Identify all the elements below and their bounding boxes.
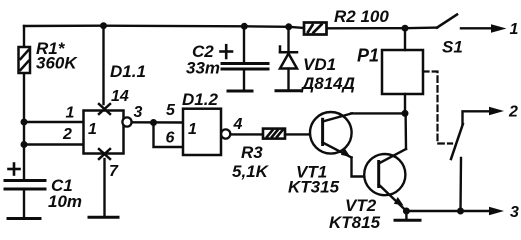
- svg-text:S1: S1: [442, 38, 463, 57]
- D1.2 output bubble pin 4: [221, 129, 230, 138]
- pin 7 X mark: [99, 149, 110, 159]
- svg-text:1: 1: [510, 21, 519, 38]
- wire pin 7 down: [103, 159, 105, 216]
- svg-text:KT815: KT815: [329, 213, 381, 232]
- wire rail to P1 top: [404, 28, 406, 50]
- wire C1 bottom lead: [23, 189, 25, 217]
- wire VT1 emitter to VT2 base: [352, 158, 379, 177]
- svg-text:7: 7: [109, 163, 119, 180]
- svg-text:1: 1: [66, 105, 75, 122]
- wire R3 to VT1 base: [285, 133, 323, 135]
- resistor R1: [19, 47, 31, 73]
- plus sign C2: [221, 45, 233, 58]
- wire VT1 collector to node: [351, 112, 405, 114]
- svg-text:33m: 33m: [186, 59, 220, 78]
- wire P1 bottom to collector node: [404, 94, 406, 113]
- ground pin7: [89, 216, 118, 219]
- node B pin1 tap: [24, 121, 84, 123]
- node pin2: [21, 141, 28, 148]
- node rail-C2: [241, 23, 248, 30]
- terminal 1 arrow: [461, 24, 507, 33]
- svg-text:3: 3: [134, 104, 143, 121]
- svg-text:360K: 360K: [36, 54, 78, 73]
- wire VT2 emitter node to contact node: [406, 210, 460, 212]
- node collector: [402, 110, 409, 117]
- node A (rail to D1.1 pin14): [102, 26, 104, 104]
- svg-text:1: 1: [188, 121, 197, 138]
- node rail-D1.1: [100, 22, 107, 29]
- svg-text:R3: R3: [241, 143, 263, 162]
- node pin5/6 split: [150, 119, 157, 126]
- svg-text:14: 14: [111, 88, 129, 105]
- svg-text:Д814Д: Д814Д: [300, 74, 355, 93]
- node pin1: [21, 119, 28, 126]
- svg-text:6: 6: [166, 130, 175, 147]
- capacitor C2: [243, 26, 245, 62]
- node emitter-ground: [403, 208, 410, 215]
- node C pin2 tap: [24, 143, 84, 145]
- wire left rail lower: [23, 73, 25, 179]
- relay P1 coil box: [382, 50, 423, 94]
- wire lower contact: [459, 158, 462, 211]
- svg-text:P1: P1: [357, 46, 379, 66]
- wire top rail right of R2: [326, 26, 437, 29]
- ground C1: [8, 217, 40, 220]
- dashed linkage from P1 to contact: [423, 72, 452, 144]
- zener diode VD1: [287, 27, 289, 52]
- wire pin3 to D1.2 pin5: [132, 121, 183, 124]
- svg-text:1: 1: [88, 121, 97, 138]
- svg-text:D1.1: D1.1: [110, 62, 146, 81]
- svg-text:4: 4: [233, 116, 243, 133]
- contact blade: [451, 124, 463, 159]
- wire C2 bottom lead: [243, 69, 245, 90]
- wire top rail left: [24, 26, 304, 28]
- transistor Q2 VT2: [364, 149, 406, 211]
- wire collector rail down to VT2 collector: [404, 113, 407, 149]
- switch S1 blade: [437, 15, 457, 28]
- svg-text:D1.2: D1.2: [182, 90, 218, 109]
- svg-text:2: 2: [62, 126, 72, 143]
- resistor R2: [304, 23, 327, 35]
- svg-text:5: 5: [166, 102, 176, 119]
- svg-text:3: 3: [510, 204, 519, 221]
- gate D1.2 box: [183, 109, 221, 155]
- wire to pin 6 L: [154, 123, 184, 148]
- svg-text:KT315: KT315: [288, 178, 340, 197]
- svg-text:10m: 10m: [48, 192, 82, 211]
- svg-text:5,1K: 5,1K: [232, 162, 270, 181]
- D1.1 output bubble pin 3: [122, 117, 131, 126]
- svg-text:2: 2: [508, 104, 518, 121]
- capacitor C1: [5, 181, 45, 190]
- transistor Q1 VT1: [310, 112, 352, 158]
- svg-text:VD1: VD1: [303, 55, 336, 74]
- wire pin4 to R3: [230, 133, 263, 135]
- ground C2: [228, 90, 252, 93]
- node rail-VD1: [285, 23, 292, 30]
- ground VT2: [395, 219, 420, 222]
- op-amp U1 : gate D1.1 box: [84, 111, 124, 154]
- svg-text:R2 100: R2 100: [334, 7, 389, 26]
- wire left rail upper: [23, 26, 25, 47]
- ground VD1: [276, 89, 301, 92]
- terminal 3 arrow: [461, 207, 505, 216]
- node rail-S1: [402, 25, 409, 32]
- pin 14 X mark: [99, 104, 110, 114]
- resistor R3: [263, 129, 285, 139]
- node terminal3: [457, 208, 464, 215]
- wire VT2 emitter ground stub: [405, 211, 407, 219]
- plus sign C1: [9, 164, 20, 175]
- relay contact to terminal 2: [463, 111, 495, 124]
